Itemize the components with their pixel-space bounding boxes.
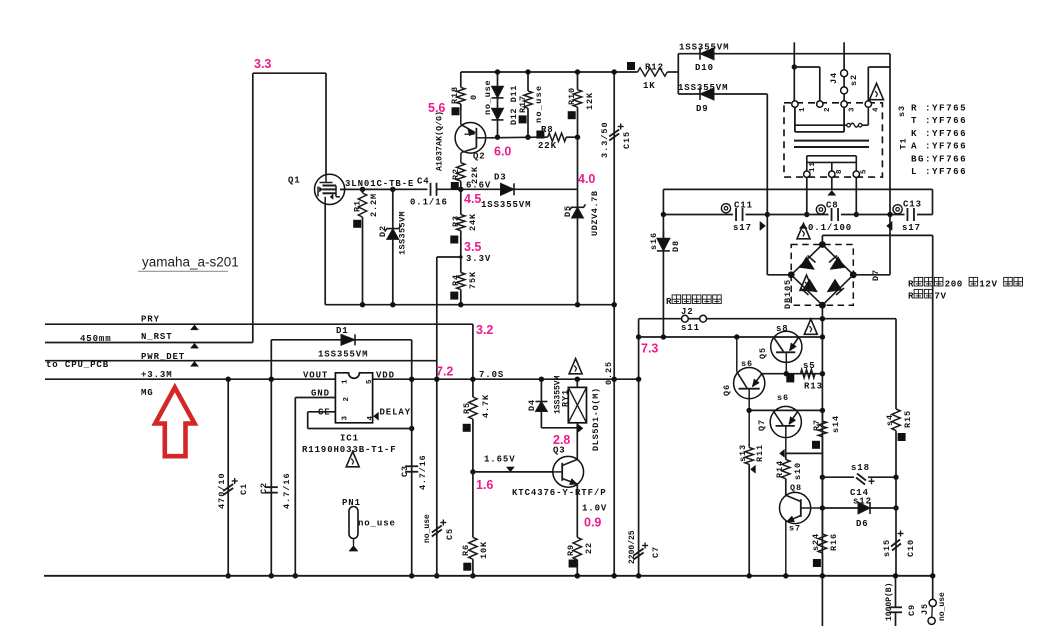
wire D9 to bridge — [766, 94, 768, 275]
svg-text:D4: D4 — [527, 399, 537, 411]
svg-text:RY1: RY1 — [561, 389, 571, 407]
svg-text:C15: C15 — [622, 131, 632, 149]
zener D5 UDZV4.7B — [577, 189, 579, 207]
marker left of 0.1/100 — [799, 224, 807, 229]
svg-text:3.5: 3.5 — [464, 240, 481, 254]
resistor R4 75K — [460, 257, 462, 273]
svg-text:Q5: Q5 — [758, 347, 768, 359]
bridge diode bottom-right — [827, 279, 842, 292]
marker RY1 bottom — [577, 424, 583, 433]
wire pin2 link — [794, 66, 820, 68]
pad R8 — [536, 131, 544, 139]
svg-text:1SS355VM: 1SS355VM — [679, 43, 729, 53]
wire pin4 link — [868, 66, 890, 68]
svg-text:R18: R18 — [450, 86, 460, 104]
svg-text:J5: J5 — [920, 603, 930, 615]
resistor R16 s24 — [820, 475, 825, 480]
svg-text:C4: C4 — [417, 177, 430, 187]
T1 primary winding — [794, 107, 796, 132]
svg-text:PN1: PN1 — [342, 498, 361, 508]
svg-text:s15: s15 — [882, 539, 892, 557]
svg-text:s11: s11 — [681, 323, 700, 333]
pad R10 — [568, 111, 576, 119]
svg-text:5.6: 5.6 — [428, 101, 445, 115]
pad R2 node — [451, 182, 459, 190]
T1 secondary pin 5 — [853, 171, 859, 177]
svg-text:R13: R13 — [804, 382, 823, 392]
svg-text:2.2M: 2.2M — [369, 193, 379, 217]
wire secondary pin11 down — [806, 177, 808, 214]
svg-text:4.7/16: 4.7/16 — [282, 472, 292, 509]
pad R7 — [812, 441, 820, 449]
resistor R8 22K — [539, 136, 548, 138]
svg-text:s8: s8 — [776, 324, 789, 334]
capacitor C14 s18 — [857, 474, 866, 481]
wire band right vertical — [932, 189, 934, 214]
svg-text:6.0: 6.0 — [494, 145, 511, 159]
svg-text:1K: 1K — [643, 81, 656, 91]
svg-text:D1: D1 — [336, 326, 349, 336]
svg-text:2200/25: 2200/25 — [628, 530, 637, 564]
svg-text:1: 1 — [799, 107, 807, 112]
wire N_RST net — [45, 342, 253, 344]
svg-text:C9: C9 — [907, 604, 917, 616]
capacitor C13 s17 — [905, 208, 918, 222]
svg-text:22K: 22K — [470, 166, 480, 184]
resistor R10 12K — [577, 72, 579, 90]
svg-text:C2: C2 — [259, 482, 269, 494]
pad R5 — [463, 424, 471, 432]
svg-text:4: 4 — [873, 107, 881, 112]
transistor Q1 3LN01C-TB-E — [315, 174, 345, 204]
wire Q1 source down — [324, 204, 326, 304]
svg-text:5: 5 — [861, 169, 869, 174]
svg-text:C1: C1 — [239, 483, 249, 495]
wire D6 row — [822, 507, 858, 509]
svg-text:1SS355VM: 1SS355VM — [398, 211, 408, 255]
capacitor C4 0.1/16 — [430, 183, 432, 196]
wire D8 column — [662, 189, 664, 337]
resistor R11 s13 — [745, 448, 753, 465]
transistor Q7 — [770, 406, 801, 437]
svg-text:s6: s6 — [741, 359, 753, 369]
svg-text:12V: 12V — [979, 279, 997, 290]
svg-text:12K: 12K — [585, 92, 595, 110]
svg-text:R12: R12 — [645, 63, 664, 73]
wire R7 bottom to R14 node — [786, 452, 822, 454]
wire cap band row — [663, 214, 932, 216]
svg-text:VDD: VDD — [376, 371, 395, 381]
diode D1 1SS355VM — [271, 339, 341, 341]
wire top middle rail — [461, 71, 638, 73]
marker DELAY pin — [374, 412, 379, 420]
pad R3 — [450, 236, 458, 244]
svg-text:s2: s2 — [849, 74, 859, 86]
wire D1 right vertical — [411, 340, 413, 576]
svg-text:+3.3M: +3.3M — [141, 370, 173, 380]
warning triangle inside bridge — [800, 275, 813, 290]
svg-text:R1190H033B-T1-F: R1190H033B-T1-F — [302, 445, 397, 455]
svg-text:R11: R11 — [755, 444, 765, 462]
svg-text:R17: R17 — [518, 95, 528, 113]
svg-text:1.6: 1.6 — [476, 478, 493, 492]
svg-text:BG:YF766: BG:YF766 — [911, 153, 967, 164]
svg-text:yamaha_a-s201: yamaha_a-s201 — [142, 255, 239, 270]
svg-text:J4: J4 — [829, 72, 839, 84]
svg-text:7.2: 7.2 — [436, 365, 453, 379]
resistor R14 s10 — [785, 453, 787, 459]
svg-text:C13: C13 — [903, 200, 922, 210]
wire right bus down — [932, 235, 934, 575]
svg-text:Q3: Q3 — [553, 446, 566, 456]
svg-text:UDZV4.7B: UDZV4.7B — [590, 190, 600, 236]
svg-text:24K: 24K — [468, 213, 478, 231]
transistor Q5 — [771, 331, 802, 362]
wire below rail C9 1000P(B) — [895, 576, 897, 607]
pad R18 — [452, 107, 460, 115]
svg-text:VOUT: VOUT — [303, 371, 328, 381]
pad R9 — [569, 560, 577, 568]
svg-text:R1: R1 — [353, 200, 363, 212]
marker on 1.65V row — [506, 467, 514, 472]
svg-text:1SS355VM: 1SS355VM — [481, 200, 531, 210]
svg-text:3.3: 3.3 — [254, 57, 271, 71]
wire D1 left vertical — [270, 340, 272, 576]
warning triangle under IC1 — [346, 452, 359, 467]
svg-text:8: 8 — [836, 169, 844, 174]
bridge diode top-left — [800, 257, 815, 270]
svg-text:s24: s24 — [811, 533, 821, 551]
svg-text:no_use: no_use — [534, 85, 544, 123]
svg-text:R6: R6 — [461, 544, 471, 556]
svg-text:2: 2 — [343, 396, 351, 401]
svg-text:C10: C10 — [906, 539, 916, 557]
wire IC1 GND pin2 — [295, 397, 335, 399]
svg-text:s12: s12 — [853, 497, 872, 507]
wire bridge right corner — [853, 274, 890, 276]
svg-text:0.9: 0.9 — [584, 516, 601, 530]
resistor R1 2.2M — [362, 189, 364, 193]
capacitor C1 470/10 — [227, 379, 229, 576]
resistor R12 1K — [627, 62, 635, 70]
svg-text:R: R — [908, 291, 914, 302]
transistor Q3 KTC4376-Y-RTF/P — [553, 456, 584, 487]
svg-text:s14: s14 — [831, 415, 841, 433]
svg-text:R3: R3 — [451, 215, 461, 227]
resistor R2 22K — [457, 163, 465, 182]
svg-text:s7: s7 — [789, 524, 801, 534]
resistor R9 22 — [576, 484, 578, 537]
svg-text:C7: C7 — [651, 546, 661, 558]
resistor R3 24K — [460, 189, 462, 214]
capacitor C15 3.3/50 — [613, 72, 615, 576]
svg-text:R: R — [908, 279, 914, 290]
svg-text:R9: R9 — [566, 544, 576, 556]
svg-text:D9: D9 — [696, 104, 709, 114]
svg-text:s10: s10 — [793, 462, 803, 480]
pad R6 — [463, 563, 471, 571]
marker below R11 — [751, 465, 756, 473]
svg-text:Q2: Q2 — [473, 152, 486, 162]
svg-text:PWR_DET: PWR_DET — [141, 352, 185, 362]
wire secondary pin5 down — [855, 177, 857, 214]
pad R16 — [813, 559, 821, 567]
svg-text:1.0V: 1.0V — [582, 504, 607, 514]
svg-text:0.25: 0.25 — [604, 361, 614, 385]
svg-text:no_use: no_use — [358, 519, 396, 529]
svg-text:3: 3 — [342, 415, 350, 420]
svg-text:Q7: Q7 — [757, 419, 767, 431]
pad R17 — [519, 115, 527, 123]
svg-text:DELAY: DELAY — [380, 408, 412, 418]
svg-text:no_use: no_use — [483, 80, 493, 115]
connector J2 s11 — [639, 318, 682, 320]
svg-text:0.1/16: 0.1/16 — [410, 198, 448, 208]
svg-text:C11: C11 — [734, 201, 753, 211]
bridge DB105 dashed box — [791, 245, 853, 306]
wire s18 row — [822, 476, 854, 478]
svg-text:s17: s17 — [733, 223, 752, 233]
svg-text:C3: C3 — [400, 465, 410, 477]
svg-text:10K: 10K — [479, 541, 489, 559]
ground rail bottom — [44, 575, 933, 577]
svg-text:450mm: 450mm — [80, 334, 112, 344]
connector PN1 no_use — [349, 507, 358, 539]
diode D8 s16 — [662, 231, 664, 238]
svg-text:7.3: 7.3 — [641, 342, 658, 356]
svg-text:D8: D8 — [671, 240, 681, 252]
bridge corner nodes — [819, 241, 826, 248]
svg-text:4.7K: 4.7K — [481, 394, 491, 418]
svg-text:R15: R15 — [903, 410, 913, 428]
T1 primary pin 4 — [865, 101, 871, 107]
svg-text:3.3V: 3.3V — [466, 254, 491, 264]
wire PWR_DET net — [45, 360, 437, 362]
bridge diode bottom-left — [803, 279, 818, 292]
svg-text:to CPU_PCB: to CPU_PCB — [46, 360, 109, 370]
svg-text:R5: R5 — [462, 402, 472, 414]
svg-text:3.2: 3.2 — [476, 323, 493, 337]
pad R15 — [898, 433, 906, 441]
svg-text:3: 3 — [849, 107, 857, 112]
wire secondary pin8 down — [831, 177, 833, 189]
svg-text:T1: T1 — [899, 137, 909, 149]
capacitor C8 0.1/100 — [829, 208, 842, 222]
T1 primary pin 2 — [817, 101, 823, 107]
wire AC line 1 — [793, 42, 795, 101]
wire D10 to AC column — [889, 54, 891, 275]
svg-text:s6: s6 — [777, 393, 789, 403]
diode D10 1SS355VM — [677, 54, 679, 94]
svg-text:D10: D10 — [695, 63, 714, 73]
warning triangle above bridge — [797, 224, 810, 239]
svg-text:1.65V: 1.65V — [484, 455, 516, 465]
svg-text:A1037AK(Q/G): A1037AK(Q/G) — [435, 111, 445, 171]
resistor R15 s4 — [895, 319, 897, 409]
resistor R13 s5 — [801, 370, 816, 378]
svg-text:R2: R2 — [451, 168, 461, 180]
bridge diode top-right — [830, 257, 845, 270]
svg-text:s18: s18 — [851, 463, 870, 473]
wire 3.3V column x=436.8 — [436, 257, 438, 576]
svg-text:7.0S: 7.0S — [479, 370, 504, 380]
wire AC line 2 jumpers J4 s2 — [843, 42, 845, 70]
svg-text:KTC4376-Y-RTF/P: KTC4376-Y-RTF/P — [512, 488, 607, 498]
svg-text:0.1/100: 0.1/100 — [808, 223, 852, 233]
capacitor C2 4.7/16 — [265, 486, 278, 488]
svg-text:470/10: 470/10 — [217, 472, 227, 509]
transistor Q8 — [780, 492, 811, 523]
wire 7.3 left vertical — [638, 319, 640, 576]
T1 secondary pin 11 — [804, 171, 810, 177]
svg-text:K :YF766: K :YF766 — [911, 128, 967, 139]
diode D4 1SS355VM — [540, 379, 542, 401]
svg-text:R: R — [666, 296, 672, 307]
mid ground rail — [325, 304, 614, 306]
svg-text:11: 11 — [809, 161, 817, 172]
svg-text:A :YF766: A :YF766 — [911, 141, 967, 152]
svg-text:R8: R8 — [541, 125, 554, 135]
resistor R18 0 — [457, 87, 465, 104]
wire bridge bottom down — [821, 305, 823, 576]
diode D6 s12 — [858, 502, 870, 514]
marker under pin8 — [828, 190, 836, 195]
wire R13 row — [762, 373, 823, 375]
marker left on R14 node — [780, 449, 785, 457]
diode D2 1SS355VM — [392, 189, 394, 228]
svg-text:J2: J2 — [681, 307, 694, 317]
svg-text:7V: 7V — [934, 291, 946, 302]
svg-text:no_use: no_use — [423, 514, 432, 543]
svg-text:N_RST: N_RST — [141, 332, 173, 342]
svg-text:4.5: 4.5 — [464, 192, 481, 206]
svg-text:R :YF765: R :YF765 — [911, 103, 967, 114]
wire IC1 CE pin3 — [308, 411, 336, 413]
svg-text:s3: s3 — [897, 105, 907, 117]
svg-text:4.0: 4.0 — [578, 172, 595, 186]
warning triangle above RY1 — [569, 359, 582, 374]
transistor Q2 A1037AK — [455, 123, 486, 154]
svg-text:no_use: no_use — [938, 592, 947, 621]
wire bridge top to right bus — [821, 235, 823, 244]
diode D3 1SS355VM — [501, 183, 515, 195]
pad R1 — [353, 220, 361, 228]
marker on N_RST — [191, 343, 199, 348]
svg-text:s4: s4 — [885, 414, 895, 426]
capacitor C3 4.7/16 — [405, 465, 418, 467]
svg-text:22K: 22K — [538, 141, 557, 151]
svg-text:4.7/16: 4.7/16 — [418, 455, 428, 490]
svg-text:D2: D2 — [378, 225, 388, 237]
node 1.65V row — [470, 469, 475, 474]
relay RY1 DLS5D1-O(M) 0.25 — [576, 379, 578, 387]
diode D9 1SS355VM — [678, 93, 700, 95]
wire PRY net — [45, 323, 473, 325]
svg-text:DB105: DB105 — [783, 279, 793, 309]
svg-text:0: 0 — [469, 94, 479, 100]
T1 core — [794, 140, 869, 142]
svg-text:1000P(B): 1000P(B) — [885, 583, 894, 621]
diodes D11 D12 no_use — [497, 72, 499, 86]
svg-text:C8: C8 — [826, 201, 839, 211]
T1 primary pin 1 — [792, 101, 798, 107]
svg-text:T :YF766: T :YF766 — [911, 115, 967, 126]
wire Q7 row — [749, 409, 822, 411]
svg-text:R10: R10 — [567, 87, 577, 105]
svg-text:D6: D6 — [856, 519, 869, 529]
svg-text:R14: R14 — [775, 460, 785, 478]
svg-text:C5: C5 — [445, 528, 455, 540]
pad R4 — [450, 292, 458, 300]
resistor R5 4.7K — [472, 379, 474, 397]
wire +3.3M / 7.0S net — [45, 378, 639, 380]
svg-text:DLS5D1-O(M): DLS5D1-O(M) — [591, 387, 601, 451]
svg-text:75K: 75K — [468, 271, 478, 289]
svg-text:s13: s13 — [738, 444, 748, 462]
svg-text:3.3/50: 3.3/50 — [600, 121, 610, 158]
wire Q5 rail row — [639, 336, 823, 338]
resistor R17 no_use — [527, 72, 529, 91]
T1 primary pin 3 — [841, 101, 847, 107]
resistor R6 10K — [472, 472, 474, 538]
warning triangle near T1 — [870, 83, 884, 99]
svg-text:200: 200 — [945, 279, 963, 290]
pad R13 — [786, 374, 794, 382]
svg-text:s16: s16 — [649, 232, 659, 250]
svg-text:R4: R4 — [451, 274, 461, 286]
svg-text:PRY: PRY — [141, 315, 160, 325]
svg-text:R7: R7 — [812, 419, 822, 431]
svg-text:s17: s17 — [902, 223, 921, 233]
capacitor C5 no_use — [432, 526, 442, 533]
capacitor C10 s15 — [891, 540, 900, 547]
T1 secondary pin 8 — [829, 171, 835, 177]
wire top band rail — [663, 188, 932, 190]
svg-text:IC1: IC1 — [340, 434, 359, 444]
red arrow annotation — [155, 388, 194, 457]
T1 secondary winding — [807, 155, 857, 157]
marker on PRY — [191, 325, 199, 330]
marker left arrow near C13 — [887, 221, 893, 230]
IC regulator IC1 R1190H033B-T1-F — [335, 373, 372, 423]
svg-text:Q1: Q1 — [288, 176, 301, 186]
svg-text:1: 1 — [342, 379, 350, 384]
capacitor C7 2200/25 — [634, 549, 644, 556]
marker on PWR_DET — [191, 361, 199, 366]
connector J5 no_use — [932, 576, 934, 600]
marker right of s17 — [760, 221, 766, 230]
bridge DB105 edges — [791, 245, 822, 275]
svg-text:MG: MG — [141, 388, 154, 398]
svg-text:2: 2 — [824, 107, 832, 112]
svg-text:1SS355VM: 1SS355VM — [678, 83, 728, 93]
wire Q2 base row / R8 row — [490, 136, 539, 139]
wire C4 to node — [437, 188, 501, 190]
svg-text:R16: R16 — [829, 533, 839, 551]
capacitor C11 s17 — [733, 208, 746, 222]
svg-text:5: 5 — [366, 379, 374, 384]
wire PRY corner down to R5 column — [472, 324, 474, 379]
transformer T1 dashed box — [784, 103, 882, 177]
svg-text:D3: D3 — [494, 173, 507, 183]
transistor Q6 — [734, 368, 765, 399]
wire 3.3 block — [253, 72, 326, 74]
svg-text:Q6: Q6 — [722, 384, 732, 396]
svg-text:D5: D5 — [563, 205, 573, 217]
T1 thermal fuse — [847, 123, 851, 127]
svg-text:Q8: Q8 — [790, 483, 802, 493]
svg-text:s5: s5 — [803, 361, 816, 371]
